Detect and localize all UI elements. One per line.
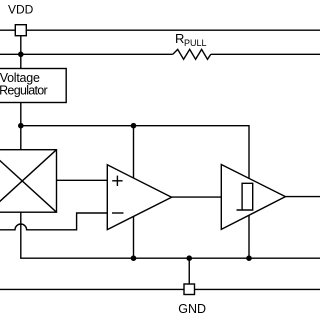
schmitt trigger A2	[221, 165, 285, 230]
wire hall output to opamp plus	[57, 179, 108, 181]
wire opamp supply vertical	[133, 126, 135, 259]
node junction bottom rail schmitt	[246, 255, 252, 261]
op-amp A1	[107, 165, 171, 230]
wire feedback with hop to opamp minus	[0, 213, 107, 230]
wire bottom GND rail	[0, 288, 320, 290]
plus input mark	[112, 176, 122, 186]
wire output to right edge	[285, 196, 320, 198]
wire second rail right of resistor	[211, 53, 320, 55]
voltage regulator U1	[0, 69, 66, 103]
wire gnd stub	[188, 258, 190, 284]
wire opamp output to schmitt input	[172, 196, 222, 198]
node junction bottom rail opamp	[131, 255, 137, 261]
wire regulator to hall plate	[20, 103, 22, 150]
svg-text:R: R	[175, 31, 184, 46]
VDD terminal square	[15, 25, 26, 36]
GND terminal square	[184, 284, 195, 295]
svg-text:PULL: PULL	[184, 38, 207, 48]
svg-text:Regulator: Regulator	[0, 84, 48, 98]
svg-text:GND: GND	[178, 302, 206, 316]
wire top VDD rail	[0, 29, 320, 31]
label RPULL	[175, 31, 207, 48]
node junction third rail left	[18, 123, 24, 129]
node junction on second rail	[18, 52, 24, 58]
minus input mark	[112, 212, 124, 214]
hysteresis symbol	[237, 183, 253, 210]
wire hall bottom to ground rail	[21, 212, 320, 258]
wire second rail left of resistor	[0, 53, 173, 55]
resistor RPULL	[173, 49, 211, 59]
node junction bottom rail gnd	[186, 255, 192, 261]
svg-text:VDD: VDD	[8, 3, 34, 17]
wire VDD vertical to regulator	[20, 36, 22, 69]
node junction third rail opamp supply	[131, 123, 137, 129]
hall plate X1	[0, 150, 57, 213]
wire third rail with corner down	[21, 126, 249, 259]
